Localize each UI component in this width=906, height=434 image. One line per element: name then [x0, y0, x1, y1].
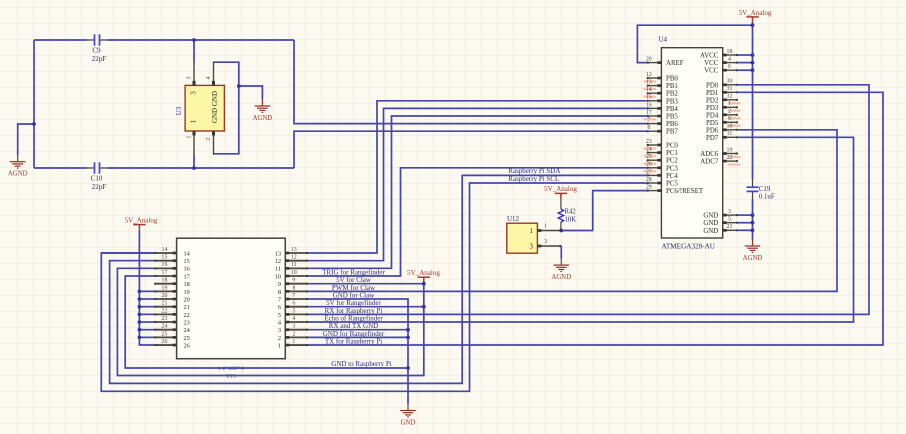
wire PC5 SCL loop to connector pin14 [101, 183, 647, 391]
svg-text:16: 16 [184, 266, 190, 273]
svg-text:19: 19 [162, 285, 168, 291]
capacitor C9 gray leads [86, 39, 108, 41]
U4 pin 15 (PB3) left [647, 100, 662, 102]
svg-text:U12: U12 [507, 215, 520, 223]
junction pin 22 [138, 312, 142, 316]
U4 pin 1 (PD3) right [723, 106, 738, 108]
wire VCC b to 5V rail [738, 69, 753, 71]
wire PB4 to connector pin12 [308, 108, 647, 260]
wire left 5V rail to connector pin 23 [139, 321, 154, 323]
svg-text:13: 13 [291, 247, 297, 253]
U4 pin 31 (PD1) right [723, 91, 738, 93]
transistor U12 body (yellow part) [507, 223, 538, 253]
wire left 5V rail to connector pin26 [139, 230, 154, 345]
svg-text:3: 3 [185, 76, 192, 79]
U4 pin 9 (PD5) right [723, 121, 738, 123]
no-connect marker pin 25 [644, 163, 657, 165]
U4 pin 20 (AREF) left [647, 62, 662, 64]
svg-text:26: 26 [646, 162, 652, 168]
svg-text:GND: GND [703, 228, 718, 235]
svg-text:PC1: PC1 [666, 150, 678, 157]
U13 pin 12 right [285, 260, 308, 262]
svg-text:0.1uF: 0.1uF [759, 194, 775, 201]
svg-text:8: 8 [647, 125, 650, 131]
wire U3 case to AGND [239, 86, 263, 100]
svg-text:8: 8 [278, 289, 281, 296]
wire connector pin9 (5V for Claw) to 5V rail [308, 283, 424, 285]
svg-text:26: 26 [162, 339, 168, 345]
svg-text:1: 1 [544, 222, 547, 229]
svg-text:3: 3 [529, 243, 533, 251]
U4 pin 22 (ADC7) right [723, 160, 738, 162]
wire PC6/!RESET to R42/U12 [561, 191, 647, 231]
resistor R42 bottom lead [560, 222, 562, 231]
wire PD7 to connector pin4 (Echo of Rangefinder) [308, 137, 854, 322]
U4 pin 18 (AVCC) right [723, 54, 738, 56]
U13 pin 20 left [154, 298, 176, 300]
svg-text:2: 2 [205, 137, 212, 140]
svg-text:PC2: PC2 [666, 158, 678, 165]
no-connect marker pin 2 [728, 117, 741, 119]
svg-text:6: 6 [292, 301, 295, 307]
svg-text:PB1: PB1 [666, 83, 678, 90]
no-connect marker pin 22 [728, 164, 741, 166]
wire connector pin3 (RX and TX GND) [308, 329, 408, 331]
U13 pin 4 right [285, 321, 308, 323]
svg-text:20: 20 [646, 57, 652, 63]
svg-text:GND: GND [703, 220, 718, 227]
svg-text:7: 7 [278, 296, 281, 303]
U4 pin 29 (PC6/!RESET) left [647, 190, 662, 192]
wire to AGND (left) [18, 124, 34, 155]
svg-text:GND: GND [703, 213, 718, 220]
svg-text:4: 4 [728, 57, 731, 63]
svg-text:11: 11 [291, 262, 297, 268]
svg-text:6: 6 [728, 64, 731, 70]
svg-text:17: 17 [646, 110, 652, 116]
wire GND pin to gnd rail [738, 229, 753, 231]
svg-text:13: 13 [646, 80, 652, 86]
U13 pin 21 left [154, 306, 176, 308]
junction VCC b/5V rail [751, 68, 755, 72]
wire connector pin14 stub (SCL loop) [101, 252, 154, 254]
svg-text:U4: U4 [659, 36, 668, 44]
svg-text:PC0: PC0 [666, 143, 678, 150]
wire crystal-top left segment [34, 39, 87, 41]
svg-text:1: 1 [185, 135, 192, 138]
U13 pin 7 right [285, 298, 308, 300]
power port 5V_Analog (above R42) [555, 193, 567, 199]
U12 pin 1 [537, 230, 561, 232]
svg-text:12: 12 [275, 258, 281, 265]
junction GND to Raspberry Pi [406, 366, 410, 370]
no-connect marker pin 12 [644, 80, 657, 82]
svg-text:21: 21 [162, 301, 168, 307]
no-connect marker pin 19 [728, 156, 741, 158]
svg-text:C10: C10 [91, 175, 103, 183]
U13 pin 25 left [154, 336, 176, 338]
svg-text:10: 10 [727, 124, 733, 130]
svg-text:15: 15 [646, 95, 652, 101]
svg-text:VCC: VCC [704, 68, 719, 75]
svg-text:16: 16 [162, 262, 168, 268]
no-connect marker pin 9 [728, 125, 741, 127]
svg-text:PC6/!RESET: PC6/!RESET [666, 188, 704, 195]
svg-text:9: 9 [292, 278, 295, 284]
wire 5V vertical to C19 [752, 22, 754, 179]
svg-text:17: 17 [162, 270, 168, 276]
junction 5V for Claw [422, 282, 426, 286]
svg-text:AVCC: AVCC [700, 53, 719, 60]
U4 pin 2 (PD4) right [723, 114, 738, 116]
U4 pin 23 (PC0) left [647, 144, 662, 146]
U13 pin 16 left [154, 267, 176, 269]
U13 pin 22 left [154, 313, 176, 315]
svg-text:18: 18 [727, 49, 733, 55]
svg-text:10: 10 [291, 270, 297, 276]
wire connector pin7 (GND for Claw) down to GND [308, 299, 408, 404]
junction GND pin/gnd rail [751, 228, 755, 232]
U4 pin 13 (PB1) left [647, 85, 662, 87]
no-connect marker pin 26 [644, 170, 657, 172]
svg-text:GND: GND [401, 420, 416, 427]
svg-text:16: 16 [646, 102, 652, 108]
svg-text:1: 1 [529, 227, 533, 235]
junction VCC a/5V rail [751, 61, 755, 65]
U4 pin 11 (PD7) right [723, 136, 738, 138]
svg-text:GND GND: GND GND [211, 91, 219, 123]
crystal U3 body [185, 85, 224, 131]
svg-text:Raspberry Pi SCL: Raspberry Pi SCL [508, 175, 559, 183]
U13 pin 19 left [154, 290, 176, 292]
junction AREF/5V rail [751, 23, 755, 27]
U13 pin 9 right [285, 283, 308, 285]
wire PC3 to connector pin10 (TRIG) [308, 168, 647, 276]
svg-text:14: 14 [646, 87, 652, 93]
svg-text:R42: R42 [565, 208, 577, 215]
U13 pin 23 left [154, 321, 176, 323]
U3 pin 1 (bottom left) [193, 131, 195, 155]
U4 pin 4 (VCC) right [723, 62, 738, 64]
junction pin 19 [138, 289, 142, 293]
U13 pin 13 right [285, 252, 308, 254]
U13 pin 15 left [154, 260, 176, 262]
svg-text:3: 3 [292, 324, 295, 330]
wire connector pin15 stub (SDA loop) [110, 260, 155, 262]
capacitor C10 [95, 162, 100, 174]
svg-text:26: 26 [184, 342, 190, 349]
svg-text:5V_Analog: 5V_Analog [407, 269, 440, 277]
svg-text:PD0: PD0 [706, 82, 719, 89]
power ground AGND (right of U3) [255, 100, 271, 113]
svg-text:7: 7 [292, 293, 295, 299]
junction 5V for Rangefinder [422, 305, 426, 309]
junction GND pin/gnd rail [751, 221, 755, 225]
svg-text:6: 6 [278, 304, 281, 311]
svg-text:25: 25 [646, 154, 652, 160]
wire U3 pin1 to crystal-bottom [193, 155, 195, 169]
svg-text:PB0: PB0 [666, 76, 678, 83]
svg-text:PB6: PB6 [666, 121, 678, 128]
svg-text:5: 5 [292, 308, 295, 314]
svg-text:25: 25 [162, 331, 168, 337]
U13 pin 14 left [154, 252, 176, 254]
wire crystal-top right segment to corner [108, 39, 295, 41]
power ground AGND (below U12) [554, 259, 570, 272]
junction R42/U12 pin1/reset wire [559, 229, 563, 233]
resistor R42 top lead [560, 199, 562, 209]
junction case gnd [237, 84, 241, 88]
power port 5V_Analog (right of connector) [418, 277, 430, 283]
U4 pin 12 (PB0) left [647, 77, 662, 79]
junction pin 24 [138, 328, 142, 332]
U4 pin 21 (GND) right [723, 229, 738, 231]
svg-text:PB3: PB3 [666, 98, 678, 105]
svg-text:C19: C19 [759, 186, 771, 193]
svg-text:14: 14 [162, 247, 168, 253]
svg-text:ADC6: ADC6 [700, 151, 719, 158]
svg-text:28: 28 [646, 177, 652, 183]
svg-text:2: 2 [728, 109, 731, 115]
svg-text:23: 23 [646, 139, 652, 145]
svg-text:22pF: 22pF [92, 55, 107, 63]
svg-text:AGND: AGND [551, 274, 571, 281]
U13 pin 18 left [154, 283, 176, 285]
svg-text:10K: 10K [565, 216, 577, 223]
svg-text:11: 11 [275, 266, 281, 273]
svg-text:30: 30 [727, 79, 733, 85]
junction pin 25 [138, 335, 142, 339]
U13 pin 6 right [285, 306, 308, 308]
svg-text:PB4: PB4 [666, 106, 678, 113]
svg-text:1: 1 [292, 339, 295, 345]
svg-text:PD5: PD5 [706, 120, 719, 127]
svg-text:TX for Raspberry Pi: TX for Raspberry Pi [325, 337, 382, 345]
svg-text:PD6: PD6 [706, 127, 719, 134]
wire left 5V rail to connector pin 19 [139, 290, 154, 292]
svg-text:2: 2 [292, 331, 295, 337]
svg-text:27: 27 [646, 169, 652, 175]
svg-text:ADC7: ADC7 [700, 159, 719, 166]
wire connector pin17 loop (GND to Raspberry Pi) [125, 276, 408, 368]
svg-text:18: 18 [184, 281, 190, 288]
wire XTAL1 to PB6 [294, 40, 647, 124]
svg-text:5: 5 [728, 217, 731, 223]
svg-text:5V_Analog: 5V_Analog [739, 9, 772, 17]
capacitor C19 [747, 187, 759, 191]
wire left 5V rail to connector pin 21 [139, 306, 154, 308]
U4 pin 19 (ADC6) right [723, 153, 738, 155]
U3 pin 3 (top left) [193, 62, 195, 86]
svg-text:24: 24 [646, 147, 652, 153]
svg-text:22: 22 [727, 155, 733, 161]
U4 pin 10 (PD6) right [723, 129, 738, 131]
svg-text:PB5: PB5 [666, 114, 678, 121]
U13 pin 26 left [154, 344, 176, 346]
svg-text:5: 5 [278, 312, 281, 319]
svg-text:20: 20 [162, 293, 168, 299]
svg-text:VCC: VCC [704, 60, 719, 67]
U13 pin 10 right [285, 275, 308, 277]
wire AREF to 5V_Analog [637, 25, 752, 62]
svg-text:5V_Analog: 5V_Analog [125, 216, 158, 224]
svg-text:8: 8 [292, 285, 295, 291]
U4 pin 8 (PB7) left [647, 130, 662, 132]
wire cap common (AGND side) vertical [33, 40, 35, 168]
wire GND pin to gnd rail [738, 214, 753, 216]
svg-text:PD2: PD2 [706, 97, 719, 104]
wire left 5V rail to connector pin 24 [139, 329, 154, 331]
wire AVCC to 5V rail [738, 54, 753, 56]
junction pin 23 [138, 320, 142, 324]
svg-text:PD1: PD1 [706, 90, 719, 97]
wire C19 to GND pins / AGND [752, 200, 754, 240]
svg-text:PC5: PC5 [666, 181, 678, 188]
junction XTAL1 / pin3 [192, 38, 196, 42]
svg-text:22pF: 22pF [92, 183, 107, 191]
U13 pin 11 right [285, 267, 308, 269]
svg-text:12: 12 [291, 255, 297, 261]
wire PD0 to connector pin5 (RX for Raspberry Pi) [308, 85, 869, 315]
U3 pin 2 (bottom right) [213, 131, 215, 155]
svg-text:2: 2 [278, 335, 281, 342]
svg-text:PB2: PB2 [666, 91, 678, 98]
U4 pin 27 (PC4) left [647, 174, 662, 176]
no-connect marker pin 13 [644, 88, 657, 90]
wire left 5V rail to connector pin 20 [139, 298, 154, 300]
U4 pin 7 (PB6) left [647, 123, 662, 125]
svg-text:31: 31 [727, 86, 733, 92]
junction GND for Rangefinder [406, 336, 410, 340]
wire crystal-bottom left segment [34, 167, 87, 169]
no-connect marker pin 24 [644, 155, 657, 157]
U4 pin 3 (GND) right [723, 214, 738, 216]
connector U13 body [177, 238, 286, 359]
svg-text:PB7: PB7 [666, 129, 678, 136]
svg-text:19: 19 [184, 289, 190, 296]
svg-text:32: 32 [727, 94, 733, 100]
svg-text:3: 3 [544, 238, 547, 245]
svg-text:3: 3 [728, 209, 731, 215]
svg-text:9: 9 [728, 116, 731, 122]
svg-text:13: 13 [275, 250, 281, 257]
svg-text:PC3: PC3 [666, 165, 678, 172]
wire crystal-bottom right segment [108, 167, 295, 169]
resistor R42 zigzag [558, 209, 563, 222]
U4 pin 30 (PD0) right [723, 84, 738, 86]
svg-text:3: 3 [278, 327, 281, 334]
U4 pin 6 (VCC) right [723, 69, 738, 71]
svg-text:11: 11 [727, 131, 733, 137]
svg-text:AGND: AGND [253, 115, 273, 122]
wire U12 pin3 to AGND [560, 246, 562, 259]
no-connect marker pin 14 [644, 96, 657, 98]
svg-text:PC4: PC4 [666, 173, 678, 180]
svg-text:AGND: AGND [743, 255, 763, 262]
svg-text:AGND: AGND [8, 171, 28, 178]
junction crystal gnd branch [32, 122, 36, 126]
svg-text:24: 24 [162, 324, 168, 330]
U4 pin 26 (PC3) left [647, 167, 662, 169]
capacitor C10 gray leads [86, 167, 108, 169]
U13 pin 8 right [285, 290, 308, 292]
wire U3 pin4 loop to pin2 [214, 62, 239, 154]
U4 pin 5 (GND) right [723, 222, 738, 224]
svg-text:U13: U13 [226, 373, 236, 379]
svg-text:12: 12 [646, 72, 652, 78]
svg-text:AREF: AREF [666, 60, 684, 67]
wire PB5 to connector pin11 [308, 116, 647, 268]
power port 5V_Analog (left of connector) [133, 225, 145, 231]
svg-text:29: 29 [646, 185, 652, 191]
U13 pin 5 right [285, 313, 308, 315]
U13 pin 3 right [285, 329, 308, 331]
svg-text:1: 1 [190, 119, 198, 123]
U3 pin 4 (top right) [213, 62, 215, 86]
wire XTAL2 to PB7 [294, 131, 647, 168]
svg-text:24: 24 [184, 327, 191, 334]
junction RX and TX GND [406, 328, 410, 332]
svg-text:1: 1 [728, 101, 731, 107]
wire connector pin2 (GND for Rangefinder) [308, 336, 408, 338]
wire PD1 to connector pin1 (TX for Raspberry Pi) [308, 92, 883, 345]
svg-text:U3: U3 [175, 106, 183, 115]
U13 pin 1 right [285, 344, 308, 346]
junction AVCC/5V rail [751, 53, 755, 57]
U13 pin 17 left [154, 275, 176, 277]
svg-text:15: 15 [184, 258, 190, 265]
no-connect marker pin 23 [644, 147, 657, 149]
power port 5V_Analog (top right) [746, 17, 758, 23]
svg-text:15: 15 [162, 255, 168, 261]
junction GND pin/gnd rail [751, 213, 755, 217]
svg-text:GND to Raspberry Pi: GND to Raspberry Pi [331, 360, 392, 368]
svg-text:23: 23 [162, 316, 168, 322]
power ground AGND (left of crystal) [10, 155, 26, 168]
wire left 5V rail to connector pin 22 [139, 313, 154, 315]
U4 pin 28 (PC5) left [647, 182, 662, 184]
op-amp U4 body (ATMEGA328-AU ic) [661, 48, 722, 238]
capacitor C9 [95, 34, 100, 46]
C19 gray leads [752, 179, 754, 201]
U4 pin 32 (PD2) right [723, 99, 738, 101]
svg-text:22: 22 [184, 312, 190, 319]
svg-text:14: 14 [184, 250, 191, 257]
svg-text:3: 3 [190, 91, 198, 95]
svg-text:19: 19 [727, 147, 733, 153]
wire 5V rail to connector pin16 [117, 268, 423, 375]
U13 pin 24 left [154, 329, 176, 331]
junction pin 21 [138, 305, 142, 309]
wire U3 pin3 to crystal-top [193, 40, 195, 62]
svg-text:25: 25 [184, 335, 190, 342]
power ground GND (bottom center) [400, 404, 416, 417]
svg-text:21: 21 [727, 224, 733, 230]
svg-text:17: 17 [184, 273, 190, 280]
U13 pin 2 right [285, 336, 308, 338]
wire PB3 to connector pin13 [308, 101, 647, 253]
svg-text:18: 18 [162, 278, 168, 284]
svg-text:23: 23 [184, 319, 190, 326]
svg-text:20: 20 [184, 296, 190, 303]
power ground AGND (below U4) [745, 240, 761, 253]
svg-text:PD4: PD4 [706, 112, 719, 119]
U4 pin 14 (PB2) left [647, 92, 662, 94]
svg-text:10: 10 [275, 273, 281, 280]
svg-text:4: 4 [292, 316, 295, 322]
no-connect marker pin 1 [728, 110, 741, 112]
junction XTAL2 / pin1 [192, 166, 196, 170]
